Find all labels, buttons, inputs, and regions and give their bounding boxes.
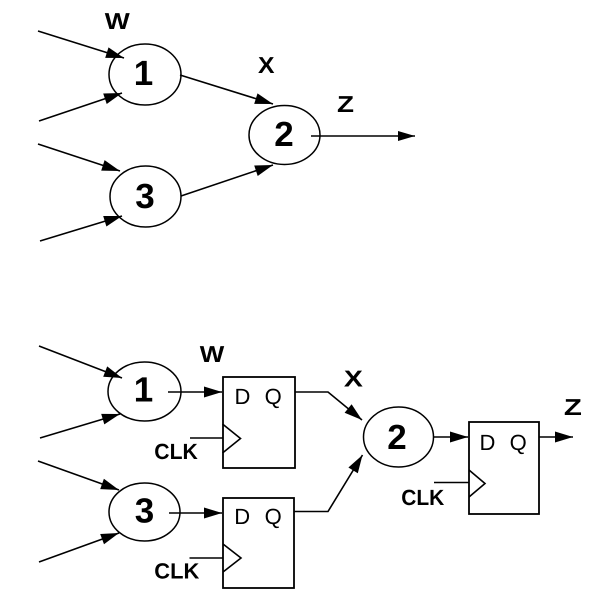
svg-text:W: W — [200, 341, 225, 367]
svg-text:Z: Z — [564, 394, 582, 420]
svg-text:2: 2 — [387, 418, 406, 457]
svg-text:W: W — [105, 8, 130, 34]
svg-text:3: 3 — [135, 177, 154, 216]
svg-text:2: 2 — [274, 115, 293, 154]
svg-text:1: 1 — [134, 371, 153, 410]
svg-text:CLK: CLK — [154, 439, 198, 464]
svg-text:1: 1 — [134, 54, 153, 93]
svg-text:3: 3 — [135, 492, 154, 531]
svg-text:X: X — [344, 366, 364, 392]
svg-text:Z: Z — [337, 91, 354, 117]
svg-text:CLK: CLK — [401, 485, 444, 510]
svg-text:Q: Q — [265, 384, 282, 409]
svg-text:D: D — [480, 430, 496, 455]
svg-text:D: D — [235, 384, 251, 409]
svg-text:Q: Q — [265, 504, 282, 529]
svg-text:CLK: CLK — [154, 559, 199, 584]
svg-text:Q: Q — [510, 430, 527, 455]
svg-text:D: D — [234, 504, 250, 529]
svg-text:X: X — [258, 52, 275, 78]
